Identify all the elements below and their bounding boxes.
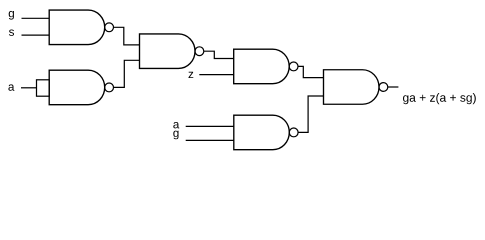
wire z input: [199, 74, 233, 76]
wire g input: [22, 17, 50, 19]
NAND gate U4: [234, 49, 298, 84]
NAND gate U3: [140, 34, 204, 68]
wire U6 output: [388, 86, 399, 88]
wire s input: [22, 34, 50, 36]
NAND gate U1 (inputs g,s): [49, 10, 113, 45]
wire U5 output to U6 input B: [298, 96, 323, 132]
wire U1 output to U3 input A: [114, 27, 140, 45]
input label s: [9, 30, 14, 36]
wire U3 output to U4 input A: [204, 51, 234, 58]
input label a: [8, 84, 14, 90]
input label g (U5): [173, 131, 178, 140]
NAND gate U6 (output stage): [324, 70, 388, 105]
input label g: [9, 11, 14, 20]
output label ga + z(a + sg): [403, 93, 476, 104]
wire a input to U5: [186, 125, 234, 127]
wire g input to U5: [186, 139, 234, 141]
NAND gate U5 (inputs a,g): [234, 115, 298, 149]
input label a (U5): [173, 122, 179, 128]
wire U4 output to U6 input A: [298, 66, 324, 77]
NAND gate U2 (inverter, input a): [49, 70, 113, 105]
input fanout rectangle (a to both pins of U2): [37, 80, 50, 96]
wire U2 output to U3 input B: [114, 60, 140, 87]
wire a input: [21, 87, 37, 89]
input label z: [189, 72, 194, 78]
